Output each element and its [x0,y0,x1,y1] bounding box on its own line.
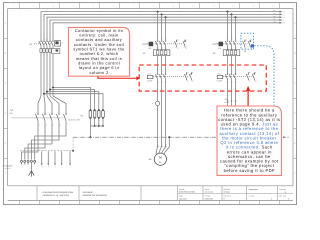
row2 actuator dashed link [223,76,246,78]
cable arrow stub 2 [47,151,49,163]
row2 main contacts [157,72,159,74]
svg-text:4-0-17-0-3: 4-0-17-0-3 [205,191,213,194]
wire left feeder verticals [40,52,42,96]
svg-text:6.2: 6.2 [149,47,152,50]
blue dashed leader curve [254,46,274,106]
wires below row1 [157,56,159,72]
node fuse merge junction [102,125,104,127]
svg-text:+CU/10: +CU/10 [5,167,11,170]
node branch junction 1 [52,86,54,88]
current transformer P1 [156,101,160,105]
node branch junction 3 [46,91,48,93]
aux contact NO [244,40,246,41]
svg-text:ELEKTROSYSTEM: ELEKTROSYSTEM [179,191,195,194]
callout box 2 [217,106,282,175]
wire staircase segment [25,122,45,159]
wire jog segment [38,96,41,113]
cable arrow stub 3 [54,151,56,163]
wire bus PE [53,23,280,40]
wire motor leads funnel [156,146,157,154]
svg-text:Nr rys.: Nr rys. [205,188,210,191]
svg-text:D: D [5,112,7,115]
title block dividers [36,186,38,201]
svg-text:1:1 A/B: 1:1 A/B [249,194,255,197]
svg-text:6.2 B/P: 6.2 B/P [147,80,153,83]
coil [219,42,223,47]
cable arrow stub 5 [69,151,71,163]
svg-text:before saving it to PDF: before saving it to PDF [224,168,275,173]
node tap ST1 L2 [161,13,163,15]
node branch junction 2 [49,89,51,91]
contactor Q1 main contacts [40,40,41,41]
wire ST2 verticals lower [227,85,229,108]
motor M1 [154,153,166,165]
switch Q2 actuator dashed link [12,117,63,119]
aux contact NO [176,40,178,41]
svg-text:Rysował: Rysował [224,188,231,191]
callout box 1 [69,27,130,76]
node tap ST1 L1 [157,11,159,13]
red dashed highlight rectangle [139,65,266,91]
wire jog segment [47,96,52,113]
wire ST1 feeder verticals [157,12,159,40]
ground symbol PE earth [30,165,32,171]
svg-text:Luty 2011: Luty 2011 [179,197,187,200]
terminal X1.3 [27,160,29,162]
contactor Q1 actuator dashed link [34,43,52,45]
terminal X1.5 [21,160,23,162]
svg-text:C: C [5,82,7,85]
svg-text:L3: L3 [283,16,285,19]
wire jog segment [53,96,66,113]
fuse F1.2 [93,111,96,117]
svg-text:4789704B: 4789704B [205,197,214,200]
wire bus N [50,20,280,40]
terminal X1.1 [34,160,36,162]
wire staircase segment [31,122,59,159]
svg-text:ZASILANIE: ZASILANIE [83,191,94,194]
svg-text:Format: Format [205,194,211,197]
node fuse merge junction [94,125,96,127]
coil mirror box [147,75,153,78]
wire PE drop to motor [165,137,170,154]
svg-text:C: C [294,82,296,85]
wire jog segment [44,96,45,113]
coil mirror box [217,75,223,78]
wire fuse merge bar [90,125,103,127]
svg-text:SIDEKOM P-1 UL. WIKTORA: SIDEKOM P-1 UL. WIKTORA [43,194,70,197]
node PE junction at fuse drop [89,136,91,138]
wire jog segment [50,96,59,113]
svg-text:column 2: column 2 [89,70,108,75]
row2 aux contact NO [186,72,188,74]
svg-text:L1: L1 [283,11,285,14]
row2 actuator dashed link [153,76,184,78]
svg-text:L2: L2 [283,13,285,16]
wire fuse to PE line [89,126,91,137]
cable arrow stub 4 [61,151,63,163]
svg-text:-X1 3X6MM2: -X1 3X6MM2 [2,165,13,168]
wire staircase segment [35,122,66,159]
row2 aux contact NC [190,72,192,74]
contactor Q1 aux block [55,41,61,47]
main contacts [157,40,158,41]
node tap ST1 L3 [165,16,167,18]
row2 aux contact NO [247,72,249,74]
terminal X1.2 [30,160,32,162]
svg-text:Data:: Data: [179,194,184,197]
red arrow to aux contact [247,90,249,106]
main contacts [227,40,228,41]
svg-text:D: D [294,112,296,115]
svg-text:ST2: ST2 [217,72,220,75]
node enclosure square [72,150,74,152]
svg-text:Umowa: Umowa [224,191,230,194]
node tap ST2 L2 [231,13,233,15]
row2 aux contact NC [253,72,255,74]
node fuse merge junction [98,125,100,127]
wire bus L1 [41,12,280,40]
contactor Q1 thermal elements [40,49,42,53]
svg-text:ODBIORCÓW ELEWATOR: ODBIORCÓW ELEWATOR [83,194,108,197]
aux contact NC [249,40,251,41]
fuse F1.1 [89,111,92,117]
node PE junction at motor drop [168,136,170,138]
svg-text:Department: Department [249,188,259,191]
svg-text:B/N. next: B/N. next [279,194,286,197]
fuse F1.3 [98,111,101,117]
node branch junction 4 [43,93,45,95]
svg-text:LEKKAWA PRZEDSIĘBIORSTWA: LEKKAWA PRZEDSIĘBIORSTWA [43,191,74,194]
wire bus L3 [47,17,280,40]
svg-text:Projekt:: Projekt: [179,188,185,191]
blue dashed highlight rectangle [241,33,254,49]
svg-text:45 B-C/1-3W: 45 B-C/1-3W [68,119,80,122]
wire branch to fuse 4 [44,94,103,111]
wires below row1 [227,56,229,72]
node tap ST2 L3 [235,16,237,18]
svg-text:3.8: 3.8 [244,50,247,53]
terminal X1.4 [24,160,26,162]
svg-text:8.4 B/P: 8.4 B/P [217,80,223,83]
wire ST1 to motor verticals [157,85,159,100]
motor terminal ticks U1 V1 W1 [157,145,159,147]
svg-text:ST1: ST1 [148,72,151,75]
aux contact NC [184,40,186,41]
enclosure dashed boundary [20,150,73,152]
wire branch to fuse 2 [50,90,95,111]
fuse F1.4 [102,111,105,117]
wire ST2 feeder verticals [227,12,229,40]
svg-text:Umowa nr.: Umowa nr. [224,194,233,197]
svg-text:*: * [152,102,153,105]
coil [149,42,153,47]
wire motor verticals [157,106,159,147]
wire branch to fuse 3 [47,92,99,111]
actuator dashed link [223,43,242,45]
thermal overload relay [223,50,240,56]
actuator dashed link [153,43,174,45]
wire staircase segment [22,122,39,159]
node tap ST2 L1 [227,11,229,13]
thermal overload relay [153,50,170,56]
wire branch to fuse 1 [53,87,90,110]
svg-text:M: M [159,156,162,160]
switch Q2 contacts [37,113,38,114]
blue solid marker square [251,44,254,47]
wire staircase segment [28,122,52,159]
svg-text:8.4: 8.4 [218,47,221,50]
row2 main contacts [227,72,229,74]
svg-text:Schemat: Schemat [279,188,286,191]
wire PE dash-dot line [73,136,284,138]
svg-text:4: 4 [288,198,289,201]
cable arrow stub 1 [41,151,43,163]
svg-text:6: 6 [271,197,272,200]
svg-text:4G2.5: 4G2.5 [224,101,229,104]
callout 1 leader arrow [98,76,137,78]
wire bus L2 [44,14,280,40]
